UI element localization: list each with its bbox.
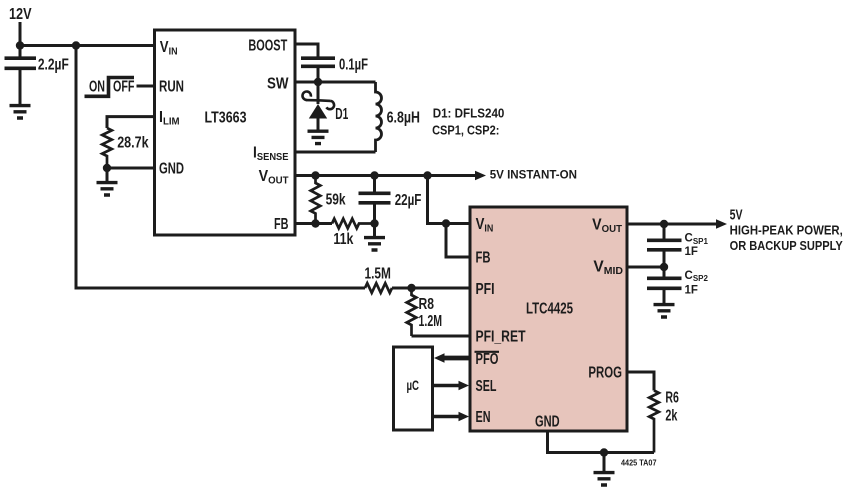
svg-text:GND: GND [535, 414, 560, 431]
capacitor 2.2uF [5, 46, 69, 105]
arrow EN from uC [433, 412, 469, 421]
pin FB (LT3663) [274, 216, 289, 233]
pin PFI_RET (LTC4425) [476, 329, 526, 346]
svg-text:PFI_RET: PFI_RET [476, 329, 526, 346]
svg-text:12V: 12V [9, 6, 32, 23]
svg-text:1F: 1F [685, 246, 698, 258]
junction dot VMID / CSP2 [660, 263, 668, 271]
diode D1 schottky [302, 82, 348, 130]
resistor R8 1.2M [407, 288, 442, 336]
svg-text:0.1µF: 0.1µF [339, 56, 368, 73]
wire VMID [627, 266, 664, 269]
wire top rail from 12V to LT3663 VIN [19, 44, 157, 47]
pin VIN (LTC4425) [476, 216, 494, 235]
wire BOOST to 0.1uF [295, 44, 318, 57]
svg-text:HIGH-PEAK POWER,: HIGH-PEAK POWER, [730, 224, 843, 238]
junction dot 11k / 22uF / ground [370, 219, 378, 227]
junction dot 28.7k / GND [103, 164, 111, 172]
wire PROG to R6 [627, 372, 654, 391]
svg-text:5V INSTANT-ON: 5V INSTANT-ON [490, 167, 577, 181]
switch waveform ON/OFF [85, 78, 135, 97]
svg-text:FB: FB [476, 250, 491, 267]
wire VOUT rail of LT3663 [295, 174, 476, 177]
junction dot feed tap on top rail [72, 41, 80, 49]
pin ISENSE (LT3663) [253, 145, 289, 163]
svg-text:RUN: RUN [159, 79, 184, 96]
svg-text:GND: GND [159, 161, 184, 178]
note CSP1, CSP2: [432, 123, 499, 138]
pin BOOST (LT3663) [248, 38, 287, 55]
arrow PFO to uC [434, 353, 469, 362]
capacitor CSP1 1F [647, 224, 708, 267]
wire ILIM [107, 117, 156, 128]
junction dot at 12V / 2.2uF [16, 41, 24, 49]
svg-text:2k: 2k [665, 408, 677, 425]
svg-text:D1: D1 [335, 106, 348, 123]
svg-text:4425 TA07: 4425 TA07 [621, 458, 657, 467]
svg-text:FB: FB [274, 216, 289, 233]
svg-text:22µF: 22µF [395, 192, 422, 209]
capacitor 22uF [359, 176, 422, 224]
junction dot SW / D1 [314, 78, 322, 86]
svg-text:CSP1, CSP2:: CSP1, CSP2: [432, 123, 499, 138]
svg-text:OFF: OFF [113, 79, 135, 96]
svg-text:OR BACKUP SUPPLY: OR BACKUP SUPPLY [730, 239, 844, 253]
wire PFI_RET [412, 335, 469, 338]
arrow SEL from uC [433, 381, 469, 390]
svg-text:1.5M: 1.5M [365, 266, 391, 283]
pin VIN (LT3663) [160, 39, 178, 58]
resistor 11k [332, 219, 375, 248]
arrow 5V INSTANT-ON [475, 167, 577, 181]
junction dot VOUT / CSP1 [660, 220, 668, 228]
label LT3663 [205, 110, 247, 127]
svg-text:5V: 5V [730, 207, 743, 223]
svg-text:LTC4425: LTC4425 [526, 301, 573, 318]
pin GND (LTC4425) [535, 414, 560, 431]
svg-text:D1: DFLS240: D1: DFLS240 [433, 105, 505, 120]
resistor 1.5M [365, 266, 393, 293]
pin GND (LT3663) [159, 161, 184, 178]
wire FB tie of LTC4425 [446, 224, 469, 258]
pin ILIM (LT3663) [159, 110, 180, 128]
wire 1.5M to PFI [392, 287, 469, 290]
svg-text:6.8µH: 6.8µH [387, 109, 420, 126]
svg-text:2.2µF: 2.2µF [38, 56, 69, 73]
svg-text:R8: R8 [419, 296, 435, 313]
capacitor CSP2 1F [647, 267, 708, 303]
svg-text:SW: SW [267, 75, 289, 92]
svg-text:1F: 1F [685, 285, 698, 297]
wire feed from top rail down and right to PFI resistor [76, 46, 365, 289]
pin PROG (LTC4425) [588, 365, 622, 382]
svg-text:BOOST: BOOST [248, 38, 287, 55]
pin RUN (LT3663) [159, 79, 184, 96]
svg-text:ON: ON [89, 79, 105, 96]
wire GND of LTC4425 to R6 bottom [548, 431, 655, 453]
pin PFO (LTC4425) with overline [475, 351, 500, 368]
pin PFI (LTC4425) [476, 281, 495, 298]
wire VOUT rail of LTC4425 [627, 223, 717, 226]
svg-text:EN: EN [476, 409, 491, 426]
wire FB of LT3663 [295, 222, 332, 225]
pin FB (LTC4425) [476, 250, 491, 267]
wire from VOUT rail down to LTC4425 VIN [428, 176, 469, 224]
node 12V input label [9, 6, 32, 23]
inductor 6.8uH [376, 82, 421, 152]
pin SEL (LTC4425) [476, 378, 497, 395]
svg-text:59k: 59k [326, 192, 346, 209]
junction dot VOUT / LTC feed [423, 171, 431, 179]
pin VOUT (LTC4425) [592, 217, 623, 235]
svg-text:PROG: PROG [588, 365, 622, 382]
wire SW to inductor [295, 81, 376, 84]
ground below 2.2uF [10, 106, 31, 118]
wire 12V vertical stub [19, 22, 22, 46]
svg-text:R6: R6 [665, 390, 679, 407]
svg-text:PFO: PFO [476, 351, 499, 368]
resistor R6 2k [649, 390, 679, 453]
pin EN (LTC4425) [476, 409, 491, 426]
ground below 28.7k [97, 168, 118, 195]
svg-text:1.2M: 1.2M [419, 313, 443, 330]
ground below 22uF [364, 224, 385, 251]
resistor 59k [311, 176, 346, 224]
junction dot VIN / FB tie [442, 219, 450, 227]
pin SW (LT3663) [267, 75, 289, 92]
junction dot VOUT / 22uF [370, 171, 378, 179]
wire ISENSE to inductor bottom [295, 151, 376, 154]
junction dot PFI / R8 [407, 284, 415, 292]
svg-text:LT3663: LT3663 [205, 110, 247, 127]
junction dot VOUT / 59k [311, 171, 319, 179]
arrow 5V backup output [716, 207, 843, 253]
ground below CSP2 [654, 305, 675, 317]
pin VMID (LTC4425) [593, 259, 623, 278]
note 4425 TA07 [621, 458, 657, 467]
IC U2 LTC4425 box [470, 207, 627, 431]
note D1: DFLS240 [433, 105, 505, 120]
junction dot FB / 59k [311, 219, 319, 227]
junction dot GND net [600, 448, 608, 456]
label LTC4425 [526, 301, 573, 318]
svg-text:28.7k: 28.7k [117, 135, 149, 152]
wire GND of LT3663 [107, 167, 156, 170]
IC uC box [394, 347, 433, 430]
svg-text:µC: µC [407, 377, 420, 393]
pin VOUT (LT3663) [259, 169, 290, 187]
svg-text:11k: 11k [333, 231, 353, 248]
ground below D1 [308, 131, 329, 143]
wire RUN [137, 85, 157, 88]
IC U1 LT3663 box [155, 30, 296, 235]
svg-text:PFI: PFI [476, 281, 495, 298]
capacitor 0.1uF [301, 56, 368, 82]
resistor 28.7k [102, 128, 149, 168]
ground below LTC4425 GND [594, 453, 615, 486]
svg-text:SEL: SEL [476, 378, 497, 395]
